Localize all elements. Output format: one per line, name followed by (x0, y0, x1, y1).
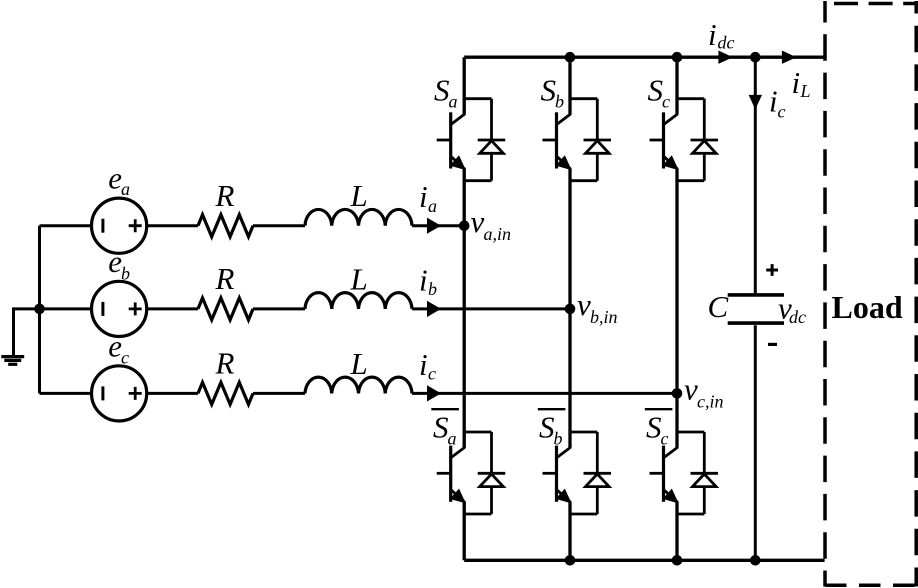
svg-text:b: b (554, 429, 563, 449)
svg-text:c: c (661, 429, 669, 449)
svg-text:R: R (215, 261, 235, 296)
svg-text:i: i (708, 17, 717, 52)
svg-text:c: c (428, 364, 436, 384)
svg-text:S: S (539, 410, 555, 445)
svg-text:dc: dc (789, 307, 806, 327)
svg-text:C: C (708, 289, 729, 324)
svg-text:i: i (419, 179, 428, 214)
svg-text:Load: Load (832, 289, 903, 325)
svg-text:a: a (449, 92, 458, 112)
svg-text:v: v (577, 287, 591, 322)
svg-text:i: i (419, 262, 428, 297)
svg-text:S: S (646, 410, 662, 445)
svg-text:a,in: a,in (484, 224, 512, 244)
svg-text:c: c (778, 102, 786, 122)
svg-text:c: c (121, 348, 129, 368)
svg-text:S: S (541, 73, 557, 108)
svg-text:i: i (792, 65, 801, 100)
svg-text:L: L (350, 261, 368, 296)
svg-text:a: a (428, 196, 437, 216)
svg-text:a: a (121, 179, 130, 199)
svg-text:R: R (215, 178, 235, 213)
svg-text:R: R (215, 346, 235, 381)
svg-text:i: i (769, 84, 778, 119)
svg-text:v: v (471, 204, 485, 239)
svg-text:c: c (662, 92, 670, 112)
svg-text:b: b (555, 92, 564, 112)
svg-text:L: L (350, 346, 368, 381)
svg-text:a: a (448, 429, 457, 449)
svg-text:S: S (433, 410, 449, 445)
svg-text:S: S (648, 73, 664, 108)
svg-text:b: b (121, 264, 130, 284)
svg-text:L: L (800, 81, 811, 101)
svg-text:L: L (350, 178, 368, 213)
svg-text:v: v (684, 372, 698, 407)
svg-text:b: b (428, 279, 437, 299)
svg-text:S: S (434, 73, 450, 108)
svg-text:b,in: b,in (590, 307, 618, 327)
svg-text:dc: dc (718, 33, 735, 53)
svg-text:i: i (419, 347, 428, 382)
svg-text:c,in: c,in (697, 392, 724, 412)
